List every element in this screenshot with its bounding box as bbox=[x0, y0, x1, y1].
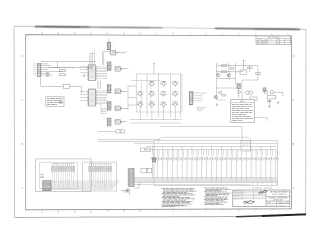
svg-text:4: 4 bbox=[238, 33, 239, 35]
svg-text:C: C bbox=[293, 99, 295, 102]
svg-text:FSCM NO.: FSCM NO. bbox=[270, 201, 275, 203]
svg-text:9: 9 bbox=[156, 33, 157, 35]
svg-text:14: 14 bbox=[74, 211, 76, 213]
svg-text:8: 8 bbox=[172, 211, 173, 213]
svg-text:12: 12 bbox=[106, 211, 108, 213]
svg-text:2: 2 bbox=[271, 34, 272, 36]
svg-text:SYM: SYM bbox=[259, 39, 262, 41]
svg-text:4: 4 bbox=[238, 211, 239, 213]
svg-text:R E V I S I O N S: R E V I S I O N S bbox=[268, 37, 279, 39]
svg-text:7: 7 bbox=[189, 33, 190, 35]
svg-text:13: 13 bbox=[90, 33, 92, 35]
svg-text:ISSUED 4-9-82: ISSUED 4-9-82 bbox=[234, 199, 242, 201]
svg-text:16: 16 bbox=[41, 33, 43, 35]
svg-text:9: 9 bbox=[156, 211, 157, 213]
svg-text:11: 11 bbox=[123, 211, 125, 213]
svg-text:B: B bbox=[257, 43, 258, 45]
svg-text:ECN 2144: ECN 2144 bbox=[262, 43, 268, 45]
svg-text:SHEET 1 OF 1: SHEET 1 OF 1 bbox=[278, 205, 286, 207]
svg-text:13: 13 bbox=[90, 211, 92, 213]
svg-text:1: 1 bbox=[287, 34, 288, 36]
svg-text:15: 15 bbox=[57, 211, 59, 213]
svg-text:7: 7 bbox=[189, 211, 190, 213]
svg-text:10: 10 bbox=[139, 211, 141, 213]
svg-text:15: 15 bbox=[57, 33, 59, 35]
svg-text:6: 6 bbox=[205, 33, 206, 35]
svg-text:NOTES: UNLESS OTHERWISE SPECI: NOTES: UNLESS OTHERWISE SPECIFIED bbox=[162, 206, 188, 208]
svg-text:5: 5 bbox=[222, 211, 223, 213]
svg-text:DESCRIPTION: DESCRIPTION bbox=[265, 39, 273, 41]
svg-text:8: 8 bbox=[172, 33, 173, 35]
svg-text:3: 3 bbox=[254, 211, 255, 213]
svg-text:10: 10 bbox=[139, 33, 141, 35]
svg-text:11: 11 bbox=[123, 33, 125, 35]
svg-text:B: B bbox=[288, 202, 289, 204]
svg-text:181250-01: 181250-01 bbox=[278, 202, 284, 204]
svg-text:6: 6 bbox=[205, 211, 206, 213]
svg-text:14: 14 bbox=[74, 33, 76, 35]
svg-text:16: 16 bbox=[41, 211, 43, 213]
svg-text:12: 12 bbox=[106, 33, 108, 35]
svg-text:3: 3 bbox=[254, 34, 255, 36]
svg-text:C: C bbox=[22, 99, 24, 102]
svg-text:1: 1 bbox=[287, 211, 288, 213]
svg-text:2: 2 bbox=[271, 211, 272, 213]
svg-text:5: 5 bbox=[222, 33, 223, 35]
svg-text:D: D bbox=[293, 55, 295, 58]
svg-text:D: D bbox=[22, 55, 24, 58]
